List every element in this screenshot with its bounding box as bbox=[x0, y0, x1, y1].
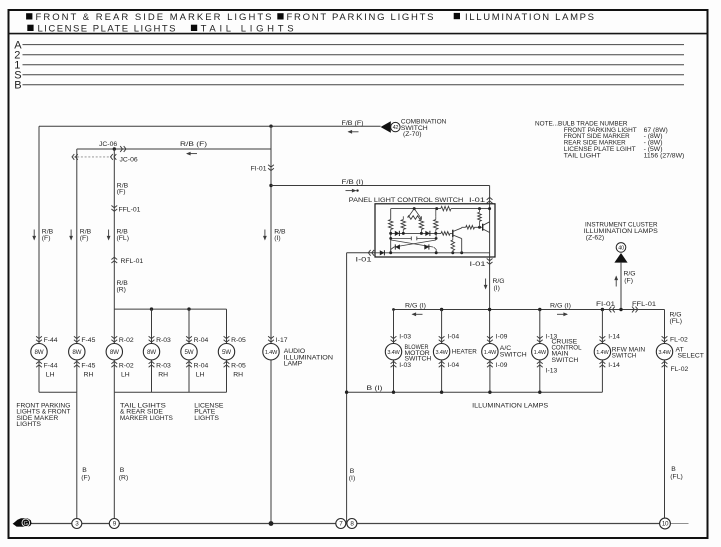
svg-text:R-03: R-03 bbox=[156, 362, 171, 369]
svg-text:3.4W: 3.4W bbox=[658, 350, 671, 356]
svg-text:42: 42 bbox=[393, 125, 399, 131]
svg-text:I-01: I-01 bbox=[356, 257, 372, 264]
svg-text:10: 10 bbox=[662, 521, 669, 528]
svg-text:(F): (F) bbox=[81, 474, 90, 481]
svg-text:JC-06: JC-06 bbox=[99, 141, 117, 148]
svg-text:FI-01: FI-01 bbox=[251, 165, 267, 172]
svg-text:B: B bbox=[120, 467, 125, 474]
svg-text:(FL): (FL) bbox=[117, 235, 129, 242]
svg-text:B: B bbox=[82, 467, 87, 474]
svg-text:B: B bbox=[14, 80, 21, 92]
svg-text:1.4W: 1.4W bbox=[265, 350, 278, 356]
svg-text:I-13: I-13 bbox=[546, 368, 558, 375]
svg-text:(I): (I) bbox=[349, 475, 355, 482]
svg-text:FRONT & REAR SIDE MARKER LIGHT: FRONT & REAR SIDE MARKER LIGHTS bbox=[36, 12, 272, 23]
svg-text:(F): (F) bbox=[624, 277, 633, 284]
svg-text:LICENSE PLATE LIGHTS: LICENSE PLATE LIGHTS bbox=[38, 23, 176, 34]
svg-text:SWITCH: SWITCH bbox=[500, 351, 527, 358]
svg-text:F-45: F-45 bbox=[81, 362, 95, 369]
svg-text:I-14: I-14 bbox=[608, 334, 620, 341]
svg-text:I-14: I-14 bbox=[608, 362, 620, 369]
svg-text:I-09: I-09 bbox=[496, 362, 508, 369]
svg-text:LH: LH bbox=[121, 372, 130, 379]
svg-text:(R): (R) bbox=[119, 474, 128, 481]
svg-text:RH: RH bbox=[233, 372, 243, 379]
svg-text:LH: LH bbox=[196, 372, 205, 379]
svg-text:8W: 8W bbox=[110, 349, 119, 356]
svg-text:8W: 8W bbox=[72, 349, 81, 356]
svg-text:R-02: R-02 bbox=[119, 337, 134, 344]
svg-text:40: 40 bbox=[618, 246, 624, 252]
svg-text:8W: 8W bbox=[35, 349, 44, 356]
svg-text:F/B (I): F/B (I) bbox=[342, 179, 364, 186]
svg-text:R/B (F): R/B (F) bbox=[180, 141, 207, 148]
svg-text:5W: 5W bbox=[185, 349, 194, 356]
svg-text:1.4W: 1.4W bbox=[484, 350, 497, 356]
svg-text:LH: LH bbox=[46, 372, 55, 379]
svg-text:R-02: R-02 bbox=[119, 362, 134, 369]
svg-text:F-44: F-44 bbox=[44, 362, 58, 369]
svg-text:I-03: I-03 bbox=[399, 334, 411, 341]
svg-text:SWITCH: SWITCH bbox=[612, 353, 637, 360]
svg-text:FFL-01: FFL-01 bbox=[632, 301, 656, 308]
svg-text:ILLUMINATION LAMPS: ILLUMINATION LAMPS bbox=[472, 402, 548, 409]
svg-text:FL-02: FL-02 bbox=[671, 366, 689, 373]
svg-text:I-03: I-03 bbox=[399, 362, 411, 369]
svg-text:R/G (I): R/G (I) bbox=[405, 303, 426, 310]
svg-text:5W: 5W bbox=[222, 349, 231, 356]
svg-text:1.4W: 1.4W bbox=[534, 350, 547, 356]
svg-text:LAMP: LAMP bbox=[284, 361, 303, 368]
svg-text:3.4W: 3.4W bbox=[435, 350, 448, 356]
svg-text:ILLUMINATION LAMPS: ILLUMINATION LAMPS bbox=[465, 12, 594, 23]
svg-text:F-45: F-45 bbox=[81, 337, 95, 344]
svg-text:(FL): (FL) bbox=[670, 473, 682, 480]
svg-text:FFL-01: FFL-01 bbox=[119, 206, 141, 213]
svg-text:G: G bbox=[24, 521, 28, 527]
svg-text:I-04: I-04 bbox=[447, 362, 459, 369]
svg-text:(F): (F) bbox=[42, 235, 51, 242]
svg-text:(Z-62): (Z-62) bbox=[586, 234, 605, 241]
svg-text:R-05: R-05 bbox=[231, 337, 246, 344]
svg-text:SELECT: SELECT bbox=[678, 353, 704, 360]
svg-text:R/G (I): R/G (I) bbox=[550, 303, 571, 310]
svg-text:R-03: R-03 bbox=[156, 337, 171, 344]
svg-text:(I): (I) bbox=[274, 235, 280, 242]
svg-text:MARKER LIGHTS: MARKER LIGHTS bbox=[120, 415, 173, 422]
svg-text:HEATER: HEATER bbox=[452, 349, 477, 356]
svg-text:JC-06: JC-06 bbox=[120, 156, 138, 163]
svg-text:RH: RH bbox=[158, 372, 168, 379]
svg-text:I-09: I-09 bbox=[496, 334, 508, 341]
svg-text:8W: 8W bbox=[147, 349, 156, 356]
svg-text:TAIL LIGHT: TAIL LIGHT bbox=[564, 152, 601, 159]
svg-text:F-44: F-44 bbox=[44, 337, 58, 344]
svg-text:RH: RH bbox=[84, 372, 94, 379]
svg-text:R-05: R-05 bbox=[231, 362, 246, 369]
svg-text:I-01: I-01 bbox=[469, 197, 485, 204]
svg-text:1156 (27/8W): 1156 (27/8W) bbox=[644, 152, 685, 159]
svg-text:SWITCH: SWITCH bbox=[552, 357, 579, 364]
svg-text:(FL): (FL) bbox=[670, 318, 682, 325]
svg-text:FRONT PARKING LIGHTS: FRONT PARKING LIGHTS bbox=[287, 12, 434, 23]
svg-text:I-04: I-04 bbox=[447, 334, 459, 341]
svg-text:(I): (I) bbox=[494, 285, 500, 292]
svg-text:FL-02: FL-02 bbox=[670, 337, 688, 344]
svg-text:B: B bbox=[350, 468, 355, 475]
svg-text:R-04: R-04 bbox=[194, 337, 209, 344]
svg-text:(F): (F) bbox=[80, 235, 89, 242]
svg-text:I-01: I-01 bbox=[470, 261, 486, 268]
svg-text:(F): (F) bbox=[117, 189, 126, 196]
svg-text:RFL-01: RFL-01 bbox=[121, 258, 144, 265]
svg-text:F/B (F): F/B (F) bbox=[342, 120, 364, 127]
svg-text:B (I): B (I) bbox=[367, 385, 383, 392]
svg-text:SWITCH: SWITCH bbox=[405, 356, 432, 363]
svg-text:(Z-70): (Z-70) bbox=[403, 131, 422, 138]
svg-text:1.4W: 1.4W bbox=[596, 350, 609, 356]
svg-text:(R): (R) bbox=[117, 286, 126, 293]
svg-text:R-04: R-04 bbox=[194, 362, 209, 369]
svg-text:LIGHTS: LIGHTS bbox=[194, 415, 219, 422]
svg-text:PANEL LIGHT CONTROL SWITCH: PANEL LIGHT CONTROL SWITCH bbox=[349, 197, 464, 204]
svg-text:I-17: I-17 bbox=[276, 337, 288, 344]
svg-text:3.4W: 3.4W bbox=[387, 350, 400, 356]
svg-text:LIGHTS: LIGHTS bbox=[16, 421, 41, 428]
svg-text:FI-01: FI-01 bbox=[596, 301, 615, 308]
svg-text:B: B bbox=[671, 466, 676, 473]
